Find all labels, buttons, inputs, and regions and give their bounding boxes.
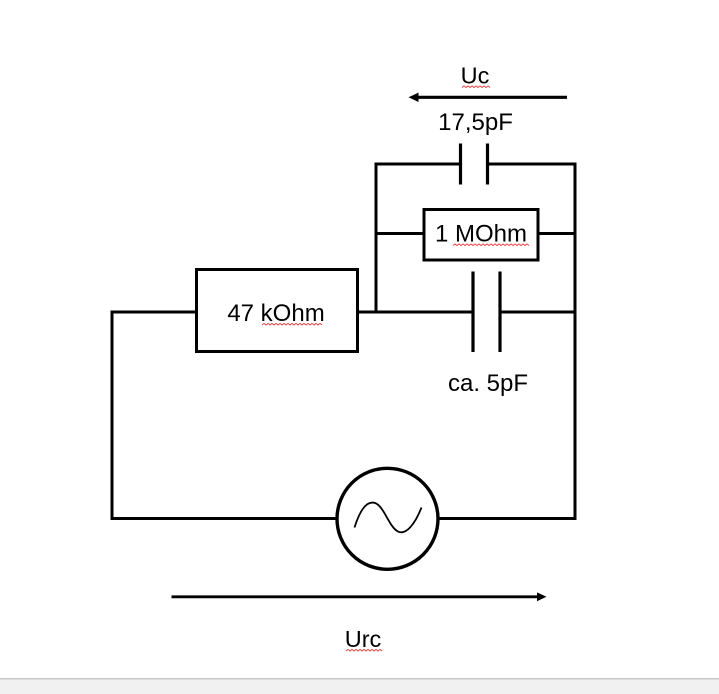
capacitor C1 17,5pF (top) xyxy=(461,144,488,185)
AC source sine wave xyxy=(355,503,422,533)
wire: C2 to right rail xyxy=(502,311,577,314)
wire: left rail to R2 xyxy=(376,232,424,235)
spellcheck squiggle under Urc xyxy=(346,649,382,651)
wire: right rail xyxy=(574,163,577,521)
wire: top branch right (C1 to right rail) xyxy=(489,163,577,166)
svg-text:1 MOhm: 1 MOhm xyxy=(435,221,527,248)
wire: left rail vertical xyxy=(111,311,114,521)
svg-text:ca. 5pF: ca. 5pF xyxy=(448,370,528,397)
bottom UI strip border xyxy=(0,678,719,680)
bottom UI strip xyxy=(0,680,719,694)
AC source V1 (circle) xyxy=(337,468,438,569)
wire: bottom right (source to right rail) xyxy=(438,517,577,520)
arrow for Uc (pointing left) xyxy=(409,93,568,102)
wire: parallel-block left rail xyxy=(375,163,378,314)
spellcheck squiggle under kOhm xyxy=(262,323,322,325)
wire: bottom left (left rail to source) xyxy=(111,517,338,520)
svg-text:Uc: Uc xyxy=(461,63,490,89)
wire: R1 to C2 xyxy=(357,311,472,314)
capacitor C2 ca. 5pF xyxy=(473,272,500,353)
resistor R1 47 kOhm (box) xyxy=(197,270,358,352)
wire: R2 to right rail xyxy=(538,232,577,235)
svg-text:17,5pF: 17,5pF xyxy=(438,109,513,136)
svg-text:Urc: Urc xyxy=(345,626,382,652)
wire: top branch left (left rail to C1) xyxy=(376,163,459,166)
wire: main left (left rail to R1) xyxy=(112,311,196,314)
spellcheck squiggle under Uc xyxy=(462,86,490,88)
arrow for Urc (pointing right) xyxy=(172,592,547,601)
resistor R2 1 MOhm (box) xyxy=(424,210,538,261)
spellcheck squiggle under MOhm xyxy=(453,244,529,246)
